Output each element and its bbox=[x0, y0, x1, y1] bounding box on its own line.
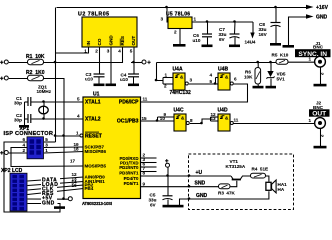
wire crystal vertical bbox=[43, 102, 45, 119]
svg-text:BNC: BNC bbox=[313, 105, 324, 110]
svg-text:6V: 6V bbox=[150, 203, 157, 208]
svg-text:11: 11 bbox=[234, 118, 239, 123]
ground C7 bbox=[229, 45, 240, 48]
svg-text:4: 4 bbox=[210, 72, 213, 77]
net label CLK bbox=[41, 186, 57, 192]
svg-text:R4 51E: R4 51E bbox=[252, 167, 269, 172]
svg-text:6V: 6V bbox=[219, 37, 226, 42]
arrow label 14U4 power to U4 pin14 bbox=[245, 33, 256, 45]
net label DATA bbox=[41, 177, 60, 184]
wire U4D input tie bbox=[210, 117, 212, 121]
svg-text:R3 47K: R3 47K bbox=[218, 191, 236, 196]
svg-text:U4B: U4B bbox=[218, 67, 228, 73]
wire U2 pin1 L-connection bbox=[56, 48, 89, 54]
junction U4C input riser bbox=[156, 119, 159, 122]
ground VD5 bbox=[266, 86, 277, 89]
junction R2 vertical at +5V row bbox=[62, 197, 65, 200]
svg-text:U4A: U4A bbox=[173, 67, 183, 73]
wire U5 output 6V rail bbox=[193, 21, 254, 23]
capacitor C4 u10 bbox=[120, 73, 139, 84]
junction +U row at dashed box edge bbox=[188, 174, 191, 177]
speaker HA1 bbox=[266, 180, 287, 193]
wire U4A input stub1 bbox=[163, 77, 174, 79]
junction top rail / C8 bbox=[274, 6, 277, 9]
svg-text:6: 6 bbox=[23, 137, 26, 142]
wire XTAL1 row bbox=[31, 101, 84, 103]
wire J2 shield to ground bbox=[320, 129, 322, 146]
wire R2 to reset vertical bbox=[9, 79, 64, 200]
svg-text:2: 2 bbox=[174, 30, 177, 35]
svg-text:OUT: OUT bbox=[312, 110, 326, 117]
regulator U5 78L06 bbox=[161, 12, 197, 35]
wire C2 left stub bbox=[25, 118, 29, 120]
junction sync net / VD5 bbox=[269, 61, 272, 64]
capacitor C2 30p bbox=[14, 113, 31, 123]
svg-text:MOSI/PB5: MOSI/PB5 bbox=[85, 163, 107, 168]
svg-text:PD2/INT0: PD2/INT0 bbox=[119, 165, 139, 170]
svg-text:4: 4 bbox=[23, 142, 26, 147]
junction sync net / R6 bbox=[256, 61, 259, 64]
svg-text:CO: CO bbox=[97, 38, 102, 45]
terminal +5V open circle bbox=[68, 197, 72, 201]
wire XP1 pin4 to U1 MOSI bbox=[11, 148, 84, 167]
svg-text:9: 9 bbox=[143, 181, 146, 186]
wire U1 PD5 pin 9 to SND row bbox=[141, 186, 219, 188]
wire 14U4 arrow to U4 pin 14 bbox=[252, 22, 254, 34]
svg-text:2: 2 bbox=[319, 135, 324, 138]
gate U4C bbox=[160, 107, 193, 131]
wire left vertical from top rail down to XP1 pin5 row bbox=[55, 8, 57, 143]
wire C8 drop from top rail bbox=[275, 8, 277, 23]
svg-text:3: 3 bbox=[161, 17, 164, 22]
svg-text:U4D: U4D bbox=[218, 107, 228, 113]
ground R6 bbox=[253, 86, 264, 89]
wire U1 PD3 stub pin 7 bbox=[141, 171, 157, 173]
crystal ZQ1 10MHz bbox=[37, 85, 52, 114]
svg-text:11: 11 bbox=[143, 97, 148, 102]
svg-text:10: 10 bbox=[160, 116, 166, 121]
wire VD5 lower lead bbox=[270, 79, 272, 87]
wire RESET row to U1 bbox=[56, 135, 81, 137]
resistor R2 1K0 bbox=[0, 70, 45, 82]
ground J2 bbox=[314, 146, 327, 149]
wire XP2 DATA to U1 AIN0 bbox=[28, 177, 84, 181]
svg-text:30p: 30p bbox=[14, 118, 22, 123]
ground U5 bbox=[173, 44, 186, 47]
resistor R1 10K bbox=[0, 54, 45, 66]
junction sync net / U4A drop bbox=[155, 79, 158, 82]
svg-text:13: 13 bbox=[211, 116, 217, 121]
svg-text:2: 2 bbox=[95, 48, 98, 53]
gate U4D bbox=[211, 107, 239, 131]
svg-text:RESET: RESET bbox=[85, 133, 102, 139]
svg-text:u10: u10 bbox=[193, 38, 201, 43]
ground C3 bbox=[94, 84, 105, 87]
wire C1 C2 left plates to ground bbox=[24, 102, 26, 126]
svg-text:1: 1 bbox=[165, 72, 168, 77]
transistor VT1 KT3125A bbox=[226, 159, 246, 180]
wire R6 lower lead bbox=[257, 85, 259, 87]
wire U2 pin5 to C4 bbox=[133, 48, 135, 75]
wire U4A output to U4B bbox=[189, 83, 216, 85]
svg-text:8: 8 bbox=[143, 171, 146, 176]
resistor R3 47K bbox=[218, 184, 236, 196]
wire R4 to speaker bbox=[266, 176, 269, 182]
ground J1 bbox=[314, 84, 327, 87]
svg-text:+16V: +16V bbox=[316, 5, 329, 11]
wire U4C input tie riser bbox=[157, 117, 159, 121]
svg-text:U2 78LR05: U2 78LR05 bbox=[78, 12, 110, 18]
net label RES bbox=[41, 191, 57, 197]
wire U4D input stub pin 12 bbox=[211, 116, 219, 118]
arrow +16V bbox=[306, 5, 329, 11]
svg-text:2: 2 bbox=[164, 84, 167, 89]
svg-text:GND: GND bbox=[42, 200, 55, 206]
svg-text:KT3125A: KT3125A bbox=[226, 164, 246, 169]
svg-text:IN: IN bbox=[86, 40, 91, 45]
wire XP2 LOAD to U1 AIN1 bbox=[28, 182, 84, 186]
svg-text:4: 4 bbox=[118, 48, 121, 53]
wire plus terminal drop to C5 bbox=[167, 168, 169, 197]
svg-text:2: 2 bbox=[23, 148, 26, 153]
svg-text:5V1: 5V1 bbox=[277, 77, 286, 82]
terminal plus C5 bbox=[165, 159, 170, 167]
capacitor C1 30p bbox=[14, 96, 31, 106]
svg-text:GND: GND bbox=[109, 35, 114, 46]
wire VD5 upper lead bbox=[270, 63, 272, 72]
junction U4C output step bbox=[200, 122, 203, 125]
wire U2 OUT pin5 segment to terminal bbox=[131, 62, 143, 64]
svg-text:U4C: U4C bbox=[174, 107, 184, 113]
connector J1 BNC SYNC IN bbox=[295, 41, 331, 76]
svg-text:R5 K10: R5 K10 bbox=[272, 53, 289, 58]
svg-text:5: 5 bbox=[45, 137, 48, 142]
wire C6 lower leg bbox=[207, 38, 209, 46]
ground C8 bbox=[270, 43, 281, 46]
wire R6 upper lead bbox=[257, 63, 259, 69]
svg-text:5: 5 bbox=[130, 48, 133, 53]
wire U4D input stub pin 13 bbox=[211, 120, 219, 122]
svg-text:1: 1 bbox=[84, 48, 87, 53]
wire C1 left stub bbox=[25, 101, 29, 103]
svg-text:+: + bbox=[147, 60, 151, 66]
wire +16V top rail bbox=[57, 7, 307, 9]
wire C7 lower leg bbox=[234, 38, 236, 46]
svg-text:+: + bbox=[0, 77, 4, 83]
junction crystal top bbox=[42, 100, 45, 103]
wire U1 PD0 stub pin 2 bbox=[141, 157, 157, 159]
junction RESET row / R2 vertical bbox=[62, 134, 65, 137]
zener diode VD5 5V1 bbox=[267, 71, 286, 82]
svg-text:1: 1 bbox=[76, 131, 79, 136]
capacitor C7 33u 6V bbox=[219, 27, 240, 42]
wire U4C output to U4D step bbox=[190, 119, 211, 124]
wire C8 lower leg bbox=[275, 26, 277, 44]
wire R5 to J1 bbox=[288, 61, 315, 63]
wire U4A input stub2 bbox=[163, 83, 174, 85]
wire speaker return to GND row bbox=[180, 191, 269, 205]
svg-text:RES: RES bbox=[120, 36, 125, 45]
svg-text:PB4: PB4 bbox=[85, 186, 94, 191]
wire U1 PD2 stub pin 6 bbox=[141, 166, 157, 168]
svg-text:PD3/INT1: PD3/INT1 bbox=[119, 170, 139, 175]
junction SND row at dashed box edge bbox=[188, 185, 191, 188]
wire U4B input stub2 bbox=[216, 83, 219, 85]
svg-text:OC1/PB3: OC1/PB3 bbox=[117, 119, 139, 125]
svg-text:PD6/ICP: PD6/ICP bbox=[119, 99, 139, 105]
svg-text:XTAL2: XTAL2 bbox=[85, 116, 101, 122]
svg-text:BNC: BNC bbox=[313, 45, 324, 50]
capacitor C3 u10 bbox=[85, 72, 105, 84]
ground GND terminal bbox=[283, 45, 295, 48]
svg-text:3: 3 bbox=[190, 78, 193, 83]
svg-text:OUT: OUT bbox=[131, 36, 136, 46]
wire C6 legs bbox=[207, 22, 209, 34]
wire R3 to VT1 base bbox=[231, 181, 237, 187]
svg-text:HA: HA bbox=[278, 187, 285, 192]
junction 6V rail / C6 bbox=[206, 20, 209, 23]
wire U4B input tie bbox=[215, 78, 217, 85]
ground XP2 bbox=[54, 206, 65, 209]
junction +U row / C5 bbox=[166, 174, 169, 177]
svg-text:3: 3 bbox=[107, 48, 110, 53]
junction 6V rail / C7 bbox=[233, 20, 236, 23]
wire U1 PD1 stub pin 3 bbox=[141, 162, 157, 164]
svg-text:+: + bbox=[0, 151, 4, 157]
connector J2 BNC OUT bbox=[309, 101, 330, 138]
junction top rail / U5 input bbox=[165, 6, 168, 9]
svg-text:3: 3 bbox=[45, 142, 48, 147]
wire U4B input stub bbox=[216, 77, 219, 79]
svg-text:PD5/T1: PD5/T1 bbox=[124, 181, 139, 186]
ground U2 pin3 bbox=[106, 84, 117, 87]
net label GND bbox=[41, 200, 58, 207]
svg-text:18: 18 bbox=[74, 147, 80, 152]
svg-text:15: 15 bbox=[142, 116, 148, 121]
svg-text:1: 1 bbox=[194, 17, 197, 22]
wire XP1 pin3 to U1 SCK bbox=[44, 146, 84, 149]
svg-text:GND: GND bbox=[316, 15, 328, 21]
gate U4B bbox=[210, 67, 238, 90]
wire U5 input drop from top rail bbox=[167, 8, 169, 23]
wire VT1 collector slant bbox=[231, 176, 233, 179]
svg-text:6: 6 bbox=[234, 77, 237, 82]
wire XP1 pin2 to plus terminal bbox=[9, 152, 28, 154]
wire GND arrow line and drop to ground bbox=[289, 17, 307, 45]
regulator U2 78LR05 bbox=[78, 12, 137, 54]
dashed enclosure sound unit bbox=[189, 154, 294, 210]
svg-text:17: 17 bbox=[70, 159, 76, 164]
junction crystal bottom bbox=[42, 117, 45, 120]
wire U2 pin2 to C3 bbox=[99, 48, 101, 75]
junction +5V rail / left vertical bbox=[54, 61, 57, 64]
wire XP2 GND to ground bbox=[28, 204, 61, 207]
svg-text:1: 1 bbox=[309, 57, 312, 62]
wire U4B output to U1 ICP pin 11 bbox=[141, 84, 248, 102]
svg-text:1: 1 bbox=[45, 148, 48, 153]
wire +5V rail row bbox=[9, 48, 123, 63]
svg-text:+U: +U bbox=[196, 170, 203, 176]
svg-text:8: 8 bbox=[190, 118, 193, 123]
svg-text:+: + bbox=[0, 61, 4, 67]
svg-text:SND: SND bbox=[195, 181, 206, 187]
wire XP1 pin6 stub to left ground run bbox=[4, 142, 60, 212]
svg-text:u10: u10 bbox=[120, 77, 128, 82]
capacitor C8 33u 16V bbox=[259, 22, 281, 37]
gate U4A 74HC132 bbox=[164, 67, 193, 96]
microcontroller U1 AT90S2313 bbox=[80, 92, 141, 206]
svg-text:30p: 30p bbox=[14, 101, 22, 106]
ground C6 bbox=[202, 45, 213, 48]
junction U4B input bbox=[214, 82, 217, 85]
svg-text:5: 5 bbox=[210, 79, 213, 84]
wire XP1 pin1 to U1 MISO bbox=[44, 152, 84, 154]
svg-text:U1: U1 bbox=[93, 92, 100, 98]
terminal XP1 VCC plus bbox=[0, 151, 8, 158]
wire XP2 +5V to terminal bbox=[28, 198, 69, 200]
svg-text:U5 78L06: U5 78L06 bbox=[166, 12, 190, 18]
connector XP2 LCD bbox=[1, 168, 27, 211]
resistor R5 K10 bbox=[272, 53, 289, 65]
net label LOAD bbox=[41, 181, 60, 188]
svg-text:74HC132: 74HC132 bbox=[170, 90, 192, 96]
connector XP1 ISP bbox=[4, 126, 54, 159]
svg-text:u10: u10 bbox=[85, 77, 93, 82]
wire XP2 RES to U1 PB4 bbox=[28, 189, 84, 195]
terminal +5V output bbox=[142, 60, 151, 66]
svg-text:XTAL1: XTAL1 bbox=[85, 99, 101, 105]
svg-text:10MHz: 10MHz bbox=[37, 89, 52, 94]
svg-text:4: 4 bbox=[77, 114, 80, 119]
ground C5 and dashed box bbox=[163, 205, 184, 208]
junction rail / C4 bbox=[132, 61, 135, 64]
svg-text:AT90S2313-10SI: AT90S2313-10SI bbox=[82, 201, 112, 206]
svg-text:16: 16 bbox=[72, 183, 78, 188]
resistor R4 51E bbox=[251, 167, 269, 179]
wire U5 ground pin bbox=[179, 29, 181, 45]
junction GND row at dashed box edge bbox=[188, 197, 191, 200]
wire U1 OC1 pin 15 to U4C bbox=[141, 120, 175, 122]
arrow GND terminal bbox=[306, 14, 328, 20]
svg-text:16V: 16V bbox=[259, 32, 268, 37]
junction RESET row / left vertical bbox=[54, 134, 57, 137]
capacitor C5 33u 6V bbox=[149, 193, 173, 208]
wire sync net drop to U4A input bbox=[157, 63, 164, 81]
wire XP2 CLK to U1 PB2 bbox=[28, 185, 84, 190]
wire sync input net from corner to R5 bbox=[157, 62, 277, 64]
wire VT1 emitter slant to R4 bbox=[240, 176, 251, 179]
wire J1 shield to ground bbox=[320, 68, 322, 85]
wire U4D output to J2 bbox=[232, 123, 315, 125]
wire C7 legs bbox=[234, 22, 237, 34]
ground C1 C2 bbox=[19, 125, 29, 128]
wire U4A input tie bbox=[162, 78, 164, 85]
svg-text:5: 5 bbox=[77, 97, 80, 102]
wire XP1 pin5 row bbox=[44, 141, 56, 143]
resistor R6 10K bbox=[244, 68, 261, 85]
net label +5V bbox=[41, 195, 57, 202]
wire C5 lower leg bbox=[167, 200, 169, 206]
wire U1 PD4 pin 8 to +U row bbox=[141, 175, 231, 177]
wire U2 pin3 to ground bbox=[110, 48, 112, 85]
svg-text:2: 2 bbox=[319, 73, 324, 76]
svg-text:1: 1 bbox=[309, 118, 312, 123]
svg-text:10K: 10K bbox=[244, 75, 253, 80]
svg-text:14U4: 14U4 bbox=[245, 40, 256, 45]
wire XTAL2 row bbox=[32, 118, 84, 120]
svg-text:GND: GND bbox=[196, 193, 208, 199]
capacitor C6 u10 bbox=[193, 33, 213, 43]
wire U4C input stub pin 9 bbox=[158, 116, 175, 118]
svg-text:MISO/PB6: MISO/PB6 bbox=[85, 149, 107, 154]
ground C4 bbox=[128, 84, 139, 87]
